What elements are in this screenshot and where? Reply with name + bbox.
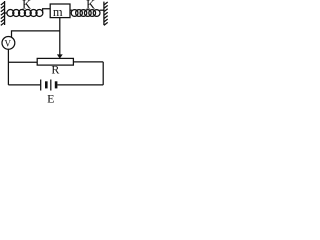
wire from mass down to slider bbox=[59, 18, 61, 55]
battery E bbox=[41, 80, 58, 91]
wire bottom left bbox=[8, 84, 40, 86]
spring K2 (right) bbox=[70, 10, 104, 17]
slider arrow bbox=[57, 54, 63, 58]
resistor R body bbox=[37, 58, 73, 65]
svg-text:R: R bbox=[51, 63, 59, 77]
wire right vertical bbox=[102, 62, 104, 85]
mass box m bbox=[50, 4, 70, 18]
svg-text:E: E bbox=[47, 92, 54, 103]
left wall bbox=[1, 1, 5, 25]
wire resistor right lead bbox=[73, 61, 103, 63]
wire bottom right bbox=[57, 84, 103, 86]
svg-text:V: V bbox=[5, 39, 12, 49]
wire voltmeter top to slider wire bbox=[12, 31, 60, 38]
spring K1 (left) bbox=[5, 9, 51, 17]
wire voltmeter bottom to bottom-left corner bbox=[7, 49, 9, 85]
right wall bbox=[104, 2, 108, 26]
svg-text:m: m bbox=[53, 5, 63, 19]
svg-text:K: K bbox=[22, 0, 31, 12]
voltmeter V bbox=[2, 37, 15, 50]
wire resistor left lead bbox=[8, 61, 37, 63]
svg-text:K: K bbox=[86, 0, 95, 12]
